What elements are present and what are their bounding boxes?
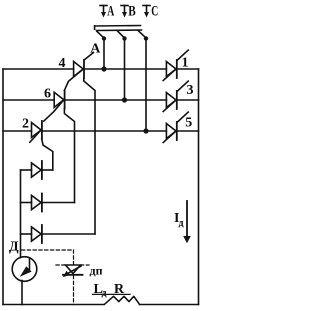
- svg-text:6: 6: [44, 87, 51, 102]
- dashed control link: valve D to element dp: [22, 250, 74, 265]
- thyristor 6: [54, 91, 64, 109]
- svg-text:5: 5: [185, 116, 192, 131]
- node: phase A junction dot: [101, 66, 106, 71]
- wire: diode anode bus down to valve D: [20, 170, 22, 258]
- terminal arrow phase A: [100, 6, 107, 18]
- thyristor 1: [163, 50, 188, 80]
- wire: phase A bus: [3, 68, 166, 70]
- wire: thyristor 6 gate lead down to thyristor 2 gate: [44, 100, 64, 121]
- wire: phase B bus: [3, 99, 166, 101]
- wire: thyristor 6 cathode tap down to diode chain: [64, 109, 74, 203]
- terminal arrow phase C: [143, 6, 150, 18]
- wire: right positive bus: [198, 69, 200, 305]
- diode VD2: [21, 194, 75, 212]
- wire: left edge bus (anode group): [2, 69, 4, 305]
- svg-text:д: д: [179, 218, 184, 229]
- arrow Id (load current direction): [183, 201, 191, 243]
- svg-text:д: д: [102, 288, 107, 299]
- thyristor 4: [74, 53, 94, 79]
- wire: switch pole A down to phase A node: [103, 39, 105, 70]
- svg-text:4: 4: [59, 56, 66, 71]
- node: phase C junction dot: [143, 128, 148, 133]
- element dp (controlled valve symbol): [63, 265, 83, 277]
- wire: valve D to bottom bus: [21, 281, 23, 305]
- switch Q (3-pole knife switch): [95, 26, 149, 41]
- svg-text:2: 2: [22, 117, 29, 132]
- diode VD1: [21, 161, 53, 179]
- wire: switch pole B down to phase B node: [124, 39, 126, 101]
- wire: thyristor 5 cathode to positive bus: [178, 130, 199, 132]
- svg-text:1: 1: [182, 55, 189, 70]
- gate stub of thyristor 2: [30, 130, 41, 142]
- svg-text:В: В: [128, 4, 136, 20]
- wire: phase C bus: [3, 130, 166, 132]
- terminal arrow phase B: [121, 6, 128, 18]
- wire: thyristor 4 cathode tap down to diode chain: [84, 78, 95, 234]
- dashed stubs at element dp: [56, 265, 89, 305]
- wire: thyristor 2 cathode tap down to diode VD1: [42, 139, 53, 170]
- wire: bottom bus right part: [140, 304, 199, 306]
- wire: thyristor 3 cathode to positive bus: [178, 99, 199, 101]
- svg-text:Д: Д: [9, 240, 19, 255]
- thyristor 2: [32, 121, 42, 139]
- wire: thyristor 1 cathode to positive bus: [178, 68, 199, 70]
- thyristor 3: [163, 81, 188, 111]
- diode VD3: [21, 225, 96, 243]
- svg-text:А: А: [107, 4, 114, 20]
- wire: switch pole C down to phase C node: [145, 39, 147, 132]
- svg-text:дп: дп: [90, 264, 103, 278]
- inductor Ld R (smoothing reactor): [105, 296, 140, 304]
- wire: thyristor 4 gate lead down to thyristor 6 gate: [64, 69, 83, 90]
- svg-text:3: 3: [187, 83, 194, 98]
- svg-text:С: С: [151, 4, 158, 20]
- node: phase B junction dot: [122, 97, 127, 102]
- thyristor 5: [163, 112, 188, 142]
- label Ld R: [93, 282, 131, 299]
- valve D (circle with arrow): [12, 257, 37, 282]
- wire: bottom bus left part: [3, 304, 104, 306]
- label Id (load current): [174, 211, 184, 229]
